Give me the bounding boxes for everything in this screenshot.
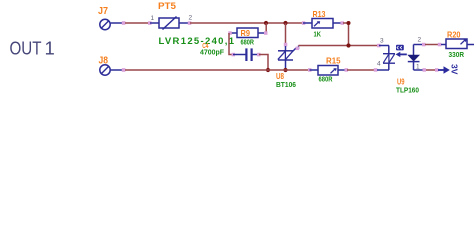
- wire gate net: [299, 45, 380, 47]
- photon arrow: [400, 53, 407, 55]
- junction node (R9 tap): [264, 21, 268, 25]
- opto-triac U9: [377, 37, 426, 95]
- resistor R9: [228, 28, 267, 38]
- svg-text:4: 4: [377, 61, 381, 68]
- resistor R15: [308, 56, 348, 84]
- wire R13 to gate net: [343, 23, 349, 46]
- junction node (C4 on bottom rail): [266, 68, 270, 72]
- wire R15 to opto pin4: [347, 69, 376, 71]
- svg-text:R20: R20: [447, 29, 461, 39]
- svg-text:1K: 1K: [314, 32, 322, 39]
- svg-text:680R: 680R: [319, 77, 333, 84]
- svg-text:3: 3: [380, 38, 384, 45]
- wire PT5 to R13 (top rail): [190, 22, 303, 24]
- svg-text:2: 2: [189, 15, 193, 22]
- triac U8: [276, 46, 299, 90]
- svg-text:J7: J7: [98, 6, 108, 17]
- resistor R20: [441, 29, 474, 59]
- wire C4 to bottom rail: [259, 55, 268, 71]
- light box icon: [396, 45, 404, 51]
- wire opto pin2 to R20: [425, 44, 440, 46]
- wire J8 to R15 (bottom rail): [125, 69, 310, 71]
- svg-text:U9: U9: [397, 78, 405, 87]
- svg-text:330R: 330R: [449, 52, 465, 59]
- svg-text:3V: 3V: [450, 64, 460, 75]
- svg-text:OUT: OUT: [10, 38, 42, 59]
- svg-text:2: 2: [418, 37, 422, 44]
- svg-text:R15: R15: [326, 56, 341, 66]
- junction node (gate net): [346, 43, 350, 47]
- svg-text:LVR125-240,1: LVR125-240,1: [159, 36, 235, 47]
- svg-text:1: 1: [151, 15, 155, 22]
- junction node (triac tap): [283, 21, 287, 25]
- connector J8: [99, 55, 126, 75]
- fuse PT5: [148, 1, 193, 30]
- connector J7: [98, 6, 125, 30]
- svg-text:R9: R9: [241, 28, 251, 38]
- wire LED pin1 to 3V: [426, 69, 438, 71]
- svg-text:TLP160: TLP160: [396, 88, 419, 95]
- capacitor C4: [200, 43, 261, 61]
- svg-text:BT106: BT106: [276, 82, 296, 89]
- svg-text:680R: 680R: [241, 40, 255, 47]
- svg-text:U8: U8: [276, 72, 284, 81]
- wire down to R9: [265, 23, 267, 33]
- power port 3V: [438, 64, 460, 75]
- wire J7 to PT5: [125, 22, 149, 24]
- wire down to triac U8: [285, 23, 287, 44]
- svg-text:1: 1: [45, 38, 55, 59]
- svg-text:4700pF: 4700pF: [200, 50, 225, 57]
- junction node (triac on bottom rail): [283, 68, 287, 72]
- resistor R13: [302, 9, 344, 38]
- svg-text:PT5: PT5: [158, 1, 177, 12]
- svg-text:R13: R13: [313, 9, 326, 19]
- wire R9 to C4: [229, 33, 233, 55]
- node at R13 corner: [347, 21, 351, 25]
